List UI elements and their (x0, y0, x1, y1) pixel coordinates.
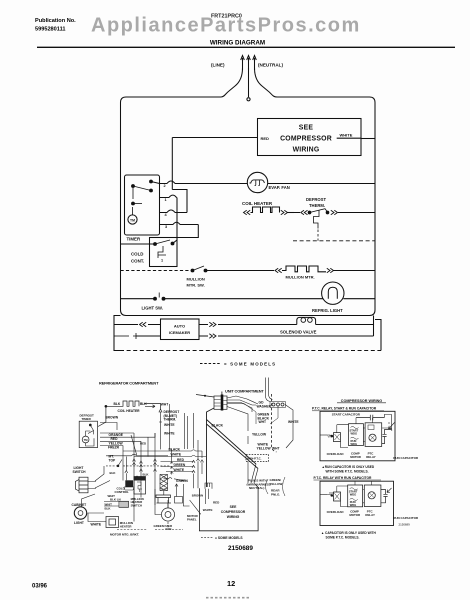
svg-text:BROWN: BROWN (192, 493, 203, 497)
svg-text:RED: RED (213, 500, 220, 504)
comp motor box 1 (349, 424, 364, 459)
wire hop arcs on vertical 171.7 (170, 449, 173, 474)
wires bottom interconnect (95, 462, 258, 530)
svg-text:WHITE: WHITE (203, 508, 213, 512)
svg-text:P.T.C. RELAY WITH RUN CAPACITO: P.T.C. RELAY WITH RUN CAPACITOR (314, 476, 373, 480)
wire vertical from red row down to timer (171, 138, 173, 190)
svg-text:WIRING: WIRING (227, 515, 240, 519)
wire light row (121, 298, 376, 300)
wire terminal1 down to cold control (173, 198, 178, 244)
svg-text:COMPRESSOR: COMPRESSOR (280, 135, 332, 142)
svg-text:RED: RED (261, 136, 270, 141)
wire jog from red vertical to heater row (172, 190, 187, 213)
svg-text:RELAY: RELAY (365, 513, 375, 517)
svg-text:(NEUTRAL): (NEUTRAL) (258, 63, 283, 68)
timer contacts lower (86, 424, 94, 446)
wire terminal3 to cold control (177, 225, 198, 238)
plug connector at compressor box top (205, 483, 212, 489)
svg-text:1: 1 (161, 259, 163, 263)
green yellow rear panel labels (266, 477, 286, 496)
wire heater row continues (288, 212, 295, 214)
svg-text:2150689: 2150689 (228, 545, 253, 552)
defrost timer box (79, 413, 97, 447)
freezer fan motor (154, 495, 175, 531)
timer motor TM (128, 215, 137, 224)
svg-text:2: 2 (164, 184, 166, 188)
svg-text:CONT.: CONT. (131, 259, 144, 264)
defrost timer box (125, 175, 160, 242)
svg-text:COIL HEATER: COIL HEATER (242, 201, 273, 206)
svg-text:START CAPACITOR: START CAPACITOR (332, 412, 361, 416)
svg-text:BLACK: BLACK (169, 447, 181, 451)
svg-text:MOTOR: MOTOR (349, 513, 361, 517)
svg-text:WITH SOME P.T.C. MODELS.: WITH SOME P.T.C. MODELS. (326, 469, 369, 473)
svg-text:GREEN: GREEN (154, 524, 164, 528)
svg-text:TIMER: TIMER (82, 417, 92, 421)
start capacitor symbol (356, 415, 384, 421)
svg-text:LIGHT SW.: LIGHT SW. (142, 306, 163, 311)
plugs with note (247, 479, 271, 491)
timer terminal 2 (151, 181, 247, 188)
svg-text:NEUTRAL): NEUTRAL) (249, 486, 264, 490)
white yellow wht labels (257, 443, 280, 451)
overload 1 (320, 433, 348, 456)
wire icemaker top row with connectors (114, 322, 297, 326)
svg-text:CONTROL: CONTROL (115, 490, 130, 494)
svg-text:WIRING DIAGRAM: WIRING DIAGRAM (210, 39, 265, 46)
some-models dashed enclosure (114, 316, 381, 351)
svg-text:REFRIGERATOR COMPARTMENT: REFRIGERATOR COMPARTMENT (99, 381, 159, 386)
cord left wire (line) (221, 68, 243, 97)
svg-text:SOME P.T.C. MODELS.: SOME P.T.C. MODELS. (326, 535, 360, 539)
svg-text:WHITE: WHITE (171, 453, 182, 457)
mullion heater switch box (131, 476, 146, 508)
svg-text:YELLOW: YELLOW (270, 482, 283, 486)
note run capacitor only used (322, 465, 375, 473)
defrost coil heater row (114, 401, 169, 413)
svg-text:WDG: WDG (350, 503, 357, 507)
main enclosure box (121, 97, 376, 316)
svg-text:BLK: BLK (140, 402, 147, 406)
timer TM motor (82, 436, 89, 443)
svg-text:OVERLOAD: OVERLOAD (327, 510, 345, 514)
cord center ground wire (247, 68, 250, 101)
ground washer (227, 378, 286, 453)
ptc relay box 2 (364, 485, 381, 517)
box1 internal wires (337, 418, 392, 442)
coil heater resistor (242, 201, 288, 215)
svg-text:MOTOR: MOTOR (350, 455, 362, 459)
svg-text:MULLION: MULLION (187, 277, 205, 282)
defrost thermostat (301, 197, 338, 229)
ptc relay box 1 (365, 423, 382, 459)
svg-text:WDG: WDG (351, 431, 358, 435)
svg-text:COMPRESSOR WIRING: COMPRESSOR WIRING (341, 399, 383, 403)
wire right bracket (373, 316, 375, 337)
svg-text:MULLION MTR.: MULLION MTR. (286, 275, 315, 280)
wire vertical black trunk from connector (207, 408, 215, 487)
svg-text:5995280111: 5995280111 (35, 27, 66, 33)
svg-text:BLK LN: BLK LN (110, 497, 121, 501)
cabinet light (72, 494, 105, 525)
svg-text:MTR. SW.: MTR. SW. (187, 283, 205, 288)
footer part number (228, 545, 253, 552)
svg-text:MOTOR MTG. BRKT.: MOTOR MTG. BRKT. (110, 533, 139, 537)
motor panel label (187, 514, 199, 522)
svg-text:WASHER: WASHER (257, 404, 272, 408)
svg-text:FREZR: FREZR (108, 446, 120, 450)
timer terminal 3 (160, 222, 199, 229)
svg-text:THERM.: THERM. (309, 203, 325, 208)
svg-text:TIMER: TIMER (127, 237, 141, 242)
svg-text:1: 1 (165, 198, 167, 202)
heading compressor wiring (337, 399, 386, 403)
box2 internal wires (337, 422, 392, 503)
wht blk labels + pin connector (104, 494, 129, 510)
svg-text:12: 12 (227, 579, 235, 588)
watermark AppliancePartsPros.com (91, 15, 361, 37)
svg-text:WHITE: WHITE (91, 523, 102, 527)
svg-text:PNLG.: PNLG. (271, 492, 280, 496)
wire icemaker bottom row (114, 333, 374, 339)
wire white from compressor box to right edge (361, 138, 375, 140)
svg-text:03/96: 03/96 (32, 584, 48, 590)
run capacitor 2 (381, 490, 419, 527)
svg-text:UNIT COMPARTMENT: UNIT COMPARTMENT (225, 389, 264, 394)
timer terminal 4 (160, 210, 188, 217)
trunk verticals (123, 404, 200, 515)
svg-text:BLK: BLK (143, 472, 150, 476)
motor mtg bracket ground (110, 530, 147, 537)
svg-text:COMPRESSOR: COMPRESSOR (221, 510, 246, 514)
wire mullion row to right edge (321, 271, 375, 272)
svg-text:SEE: SEE (230, 505, 238, 509)
power cord arrows (241, 56, 257, 71)
timer terminal 1 (160, 195, 178, 202)
subtitle ptc relay start and run capacitor (312, 407, 384, 411)
non-ptc dashed box (246, 455, 269, 462)
defrost heater element (160, 475, 168, 496)
wire red row to compressor box (172, 137, 257, 139)
comp motor box 2 (348, 485, 363, 517)
bus rows mid (106, 454, 170, 466)
svg-text:WHITE: WHITE (288, 420, 299, 424)
connector chevrons on trunk verticals (133, 459, 157, 472)
svg-text:TM: TM (130, 218, 135, 222)
header publication number (35, 18, 76, 33)
svg-text:WHT: WHT (259, 420, 267, 424)
svg-text:WHITE: WHITE (340, 132, 353, 137)
brown label wire (183, 484, 203, 514)
svg-text:YELLOW: YELLOW (252, 432, 267, 436)
compressor box 2 (320, 481, 394, 525)
footer faint watermark remnant (206, 597, 250, 599)
legend some models (200, 362, 276, 367)
cord right wire (neutral) (255, 68, 278, 97)
svg-text:VIO: VIO (328, 434, 334, 438)
svg-text:BROWN: BROWN (105, 415, 118, 419)
svg-text:SWITCH: SWITCH (73, 470, 87, 474)
wire mullion row left (some models dashed) (121, 270, 193, 272)
svg-text:REFRIG. LIGHT: REFRIG. LIGHT (312, 308, 343, 313)
svg-text:OVERLOAD: OVERLOAD (327, 452, 345, 456)
solenoid valve coil (280, 317, 317, 334)
wire left edge to cold control (121, 243, 156, 245)
run capacitor 1 (382, 430, 419, 460)
svg-text:GREEN: GREEN (176, 479, 188, 483)
svg-text:AUTO: AUTO (174, 324, 185, 329)
timer contacts (132, 180, 153, 215)
svg-text:BLK: BLK (105, 506, 112, 510)
svg-text:WDG: WDG (351, 442, 358, 446)
svg-text:FRT21PRC0: FRT21PRC0 (211, 14, 242, 20)
footer date (32, 584, 48, 590)
svg-text:TM: TM (84, 438, 89, 442)
mt top switch (109, 455, 123, 467)
mullion motor switch (187, 266, 207, 288)
svg-text:WHT: WHT (272, 446, 280, 450)
svg-text:= SOME MODELS: = SOME MODELS (224, 362, 276, 367)
arrow to run cap 2 (387, 488, 392, 493)
svg-text:3: 3 (165, 225, 167, 229)
cold control (110, 442, 150, 494)
svg-text:2150689: 2150689 (399, 523, 411, 527)
svg-text:BLK: BLK (114, 402, 121, 406)
model number (211, 14, 242, 20)
svg-text:(LINE): (LINE) (211, 63, 225, 68)
svg-text:WIRING: WIRING (293, 146, 320, 153)
svg-text:SOLENOID VALVE: SOLENOID VALVE (280, 330, 317, 335)
yellow label wire (227, 407, 267, 445)
svg-text:HEATER: HEATER (120, 525, 133, 529)
legend some models bottom (201, 536, 243, 540)
see compressor wiring enclosure (199, 484, 258, 531)
svg-text:▲ CAPACITOR IS ONLY USED WITH: ▲ CAPACITOR IS ONLY USED WITH (321, 531, 376, 535)
svg-text:Publication No.: Publication No. (35, 18, 76, 24)
svg-text:PANEL: PANEL (187, 518, 197, 522)
svg-text:COLD: COLD (131, 252, 143, 257)
wire double diagonal bundle to compressor plug (207, 420, 259, 469)
refrigerator light (312, 282, 344, 313)
svg-text:RUN CAPACITOR: RUN CAPACITOR (393, 456, 419, 460)
wire bus rows with color labels (123, 447, 206, 483)
svg-text:ICEMAKER: ICEMAKER (169, 330, 190, 335)
svg-text:COIL HEATER: COIL HEATER (118, 409, 141, 413)
svg-text:BLACK: BLACK (212, 424, 224, 428)
auto icemaker (161, 319, 200, 340)
light switch (142, 293, 165, 311)
wire dashed some-models to right edge (293, 240, 375, 242)
unit compartment connector block (196, 392, 227, 411)
wire brown label (100, 415, 119, 430)
ground tab under defrost heater (175, 484, 183, 503)
svg-text:RUN CAPACITOR: RUN CAPACITOR (393, 516, 419, 520)
svg-text:CABINET: CABINET (72, 503, 87, 507)
svg-text:RED: RED (140, 442, 146, 446)
header rule (37, 46, 455, 48)
white right column (285, 405, 299, 449)
svg-text:SWITCH: SWITCH (131, 504, 142, 508)
svg-text:TOP: TOP (109, 459, 117, 463)
wire start cap to run cap corner (384, 415, 394, 430)
compressor reference box (258, 119, 362, 156)
mullion heater (88, 513, 133, 529)
svg-text:RELAY: RELAY (366, 455, 376, 459)
subtitle ptc relay with run capacitor (314, 476, 382, 480)
light switch body (73, 466, 97, 493)
wire from heater row left down (98, 406, 122, 426)
mullion motor resistor (275, 266, 334, 280)
wire evap fan row (268, 183, 375, 185)
svg-text:YELLOW: YELLOW (257, 446, 272, 450)
svg-text:WHITE: WHITE (174, 468, 185, 472)
evaporator fan motor (247, 172, 289, 192)
wire defrost row to right edge (294, 212, 375, 214)
svg-text:LIGHT: LIGHT (74, 521, 84, 525)
svg-text:RED: RED (177, 458, 185, 462)
overload 2 (320, 492, 348, 514)
svg-text:GREEN: GREEN (174, 463, 186, 467)
svg-text:WHT: WHT (161, 402, 169, 406)
cold control (131, 238, 177, 267)
compressor box 1 (320, 411, 395, 461)
svg-text:▲RUN CAPACITOR IS ONLY USED: ▲RUN CAPACITOR IS ONLY USED (322, 465, 375, 469)
svg-text:EVAP. FAN: EVAP. FAN (269, 185, 290, 190)
timer output wires orange red yellow (100, 433, 155, 455)
svg-text:P.T.C. RELAY, START & RUN CAPA: P.T.C. RELAY, START & RUN CAPACITOR (312, 407, 377, 411)
svg-text:WDG: WDG (350, 493, 357, 497)
svg-text:DEFROST: DEFROST (306, 197, 326, 202)
wire mullion switch to heater (206, 270, 275, 272)
svg-text:4: 4 (165, 213, 168, 217)
svg-text:= SOME MODELS: = SOME MODELS (215, 536, 243, 540)
svg-text:NON-P.T.C.: NON-P.T.C. (247, 457, 262, 461)
wire solenoid to right bracket (316, 324, 374, 326)
defrost thermostat right column (144, 404, 179, 450)
green black wht labels (227, 404, 278, 425)
svg-text:BLK: BLK (110, 471, 117, 475)
svg-text:VIO: VIO (329, 491, 335, 495)
footer page number (227, 579, 235, 588)
title WIRING DIAGRAM (210, 39, 265, 46)
svg-text:SEE: SEE (299, 124, 314, 131)
vertical 193.5 hops (192, 413, 204, 481)
note capacitor only used 2 (321, 531, 376, 539)
